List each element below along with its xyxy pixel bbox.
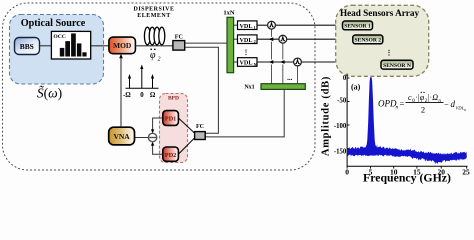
svg-text:1xN: 1xN xyxy=(223,10,235,17)
OPD formula xyxy=(378,92,466,115)
sensor 1 xyxy=(343,21,373,30)
svg-text:Amplitude (dB): Amplitude (dB) xyxy=(321,76,332,156)
circulator 2 xyxy=(279,35,287,43)
y ticks xyxy=(347,78,349,149)
svg-text:SENSOR 2: SENSOR 2 xyxy=(355,38,382,44)
crossing arrow on row2 xyxy=(269,37,274,41)
svg-text:VNA: VNA xyxy=(113,132,130,141)
svg-text:OCC: OCC xyxy=(53,34,65,40)
fiber coupler FC2 xyxy=(195,124,206,140)
VNA xyxy=(109,127,135,145)
wire PD2 to FC2 xyxy=(178,138,195,155)
svg-text:ELEMENT: ELEMENT xyxy=(137,13,171,19)
svg-text:2: 2 xyxy=(158,57,161,63)
svg-text:1: 1 xyxy=(254,25,256,30)
circulator 1 xyxy=(268,21,276,29)
drop wire circulator2 to Nx1 xyxy=(282,43,284,84)
dispersive element coil xyxy=(144,27,164,45)
crossing arrow on rowN at x282.8 xyxy=(280,60,285,64)
svg-text:25: 25 xyxy=(462,167,470,176)
wire circulator2-sensor2 xyxy=(287,38,353,40)
sensor N xyxy=(381,60,413,69)
VDL1 xyxy=(238,21,258,30)
wire FC1 to 1xN splitter xyxy=(185,42,227,44)
svg-text:BPD: BPD xyxy=(168,96,179,102)
spectrum arrow -omega xyxy=(129,77,131,88)
wire splitter-VDLN xyxy=(234,61,238,63)
svg-text:=: = xyxy=(400,99,405,109)
svg-text:⋮: ⋮ xyxy=(386,49,393,57)
wire OCC-MOD xyxy=(91,45,109,47)
svg-text:OPD: OPD xyxy=(378,99,397,109)
splitter 1xN xyxy=(223,10,235,73)
svg-text:...: ... xyxy=(287,74,293,82)
svg-text:Optical Source: Optical Source xyxy=(21,18,86,29)
spectrum main peak xyxy=(366,77,377,155)
svg-text:PD2: PD2 xyxy=(165,152,176,159)
svg-text:-150: -150 xyxy=(334,148,347,155)
svg-text:⋮: ⋮ xyxy=(243,49,250,57)
wire splitter-VDL1 xyxy=(234,24,238,26)
crossing arrow on rowN at x271.5 xyxy=(269,60,274,64)
svg-text:VDL: VDL xyxy=(239,60,252,67)
RF spectrum axis xyxy=(126,87,159,89)
BPD dashed box xyxy=(160,94,188,163)
svg-text:SENSOR 1: SENSOR 1 xyxy=(344,24,371,30)
svg-text:Frequency (GHz): Frequency (GHz) xyxy=(363,171,451,185)
x ticks xyxy=(347,166,467,168)
svg-text:VDL: VDL xyxy=(239,37,252,44)
spectrum arrow +omega xyxy=(152,77,154,88)
phi2 dispersion label xyxy=(150,48,160,62)
y tick labels xyxy=(334,75,347,155)
svg-text:MOD: MOD xyxy=(113,41,132,50)
wire VDL1-circulator1 xyxy=(257,24,268,26)
svg-text:2: 2 xyxy=(421,105,425,115)
svg-text:N: N xyxy=(254,62,257,67)
drop wire circulatorN to Nx1 xyxy=(297,66,299,84)
wire PD1 to FC2 xyxy=(178,118,195,134)
svg-text:SENSOR N: SENSOR N xyxy=(383,63,411,69)
BBS xyxy=(15,38,40,55)
VDL2 xyxy=(238,35,258,44)
svg-text:PD1: PD1 xyxy=(165,116,176,123)
wire splitter-VDL2 xyxy=(234,38,238,40)
svg-text:VDL: VDL xyxy=(239,23,252,30)
x tick labels xyxy=(345,167,470,176)
plot x axis xyxy=(347,165,468,167)
svg-text:Ω: Ω xyxy=(150,92,156,99)
fiber coupler FC1 xyxy=(173,35,185,51)
wire VNA to MOD xyxy=(120,57,122,128)
svg-text:-100: -100 xyxy=(334,123,347,130)
svg-text:-50: -50 xyxy=(337,98,347,105)
wire VNA to subtractor xyxy=(135,137,149,139)
wire circulator1-sensor1 xyxy=(275,24,342,26)
svg-text:φ: φ xyxy=(150,50,156,61)
PD2 xyxy=(163,147,179,161)
svg-text:0: 0 xyxy=(345,167,349,176)
wire PD2 to subtractor xyxy=(153,146,163,155)
svg-text:n: n xyxy=(464,108,466,112)
wire BBS-OCC xyxy=(40,45,53,47)
spectrum arrow 0 xyxy=(141,68,143,89)
PD1 xyxy=(163,111,179,126)
svg-text:n: n xyxy=(396,105,399,111)
wire PD1 to subtractor xyxy=(153,118,163,130)
subtractor node xyxy=(148,133,156,141)
wire Nx1 down to FC2 xyxy=(205,89,284,136)
svg-text:2: 2 xyxy=(254,39,256,44)
drop wire circulator1 to Nx1 xyxy=(271,29,273,84)
optical source box xyxy=(10,15,104,85)
circulator N xyxy=(294,58,302,66)
svg-text:Nx1: Nx1 xyxy=(244,85,254,91)
svg-text:(a): (a) xyxy=(351,83,361,92)
svg-text:−: − xyxy=(444,99,449,109)
spectrum noise floor xyxy=(348,144,467,165)
svg-text:0: 0 xyxy=(140,92,144,99)
combiner Nx1 xyxy=(244,84,305,91)
svg-text:DISPERSIVE: DISPERSIVE xyxy=(133,7,174,13)
wire MOD-FC1 xyxy=(135,45,173,47)
OCC xyxy=(51,31,90,59)
svg-text:BBS: BBS xyxy=(20,42,34,51)
svg-text:S̃(ω): S̃(ω) xyxy=(37,86,62,101)
wire VDLN-circulatorN xyxy=(257,61,294,63)
svg-text:FC: FC xyxy=(196,124,204,130)
interrogator outer dashed box xyxy=(3,3,316,170)
VDLN xyxy=(238,58,258,67)
plot y axis xyxy=(346,74,348,167)
svg-text:-Ω: -Ω xyxy=(123,92,131,99)
svg-text:Head Sensors Array: Head Sensors Array xyxy=(340,8,420,18)
wire circulatorN-sensorN xyxy=(301,61,381,63)
svg-text:FC: FC xyxy=(175,35,183,41)
modulator MOD xyxy=(109,37,135,54)
sensor 2 xyxy=(353,35,383,44)
svg-text:Ω: Ω xyxy=(432,93,438,102)
svg-text:0: 0 xyxy=(343,75,347,82)
head sensors array box xyxy=(336,5,429,76)
wire VDL2-circulator2 xyxy=(257,38,279,40)
svg-text:n: n xyxy=(438,99,441,104)
wire FC1 lower output down to FC2 xyxy=(185,47,219,133)
